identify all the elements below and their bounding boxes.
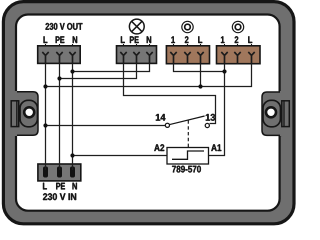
wire N to coil A2 bbox=[73, 155, 168, 157]
right latch clip bbox=[282, 101, 290, 127]
wire L to contact 14 bbox=[46, 125, 166, 127]
left latch lug bbox=[20, 100, 38, 127]
dashed actuator link bbox=[187, 120, 189, 147]
junction dot L bus at V1 bbox=[43, 84, 47, 88]
pushbutton symbol 1 bbox=[182, 21, 193, 32]
wire L bus bbox=[46, 64, 252, 87]
left latch bulge bbox=[13, 91, 38, 136]
label A2 bbox=[154, 144, 164, 151]
pushbutton symbol 2 bbox=[232, 21, 243, 32]
label 789-570 bbox=[172, 166, 201, 173]
junction dot A2 feed at V3 bbox=[70, 153, 74, 157]
terminal block B (lamp) bbox=[117, 44, 157, 63]
labels 1 2 L (block C) bbox=[171, 36, 202, 43]
enclosure inner face (white window) bbox=[16, 15, 280, 211]
caption 230 V IN bbox=[43, 193, 76, 200]
wire V1 L down bbox=[45, 63, 47, 170]
junction dot PE bus at V2 bbox=[57, 76, 61, 80]
left latch clip bbox=[11, 101, 19, 127]
labels L PE N (block B) bbox=[121, 36, 151, 43]
wire D1 down to A1 bbox=[209, 64, 225, 156]
labels L PE N (block A) bbox=[44, 36, 78, 43]
lamp symbol bbox=[129, 19, 144, 34]
terminal block A (230 V OUT) bbox=[38, 44, 80, 63]
wire block C L drop bbox=[200, 64, 202, 87]
wire V2 PE down bbox=[59, 63, 61, 170]
labels L PE N (block E) bbox=[43, 183, 77, 190]
junction dot C1-D1 at D1 bbox=[222, 69, 226, 73]
caption 230 V OUT bbox=[46, 23, 83, 30]
label 14 bbox=[156, 114, 166, 121]
contact 13 terminal bbox=[205, 123, 209, 127]
wire C1 to D1 bbox=[174, 64, 225, 72]
label A1 bbox=[211, 144, 221, 151]
wire N bus to lamp block bbox=[73, 63, 150, 71]
junction dot L bus at C L bbox=[198, 84, 202, 88]
junction dot 14 feed at V1 bbox=[43, 123, 47, 127]
junction dot N bus at V3 bbox=[70, 69, 74, 73]
right latch lug bbox=[263, 100, 281, 127]
right latch bulge bbox=[262, 91, 286, 136]
switch arm bbox=[170, 116, 205, 125]
wire V3 N down bbox=[72, 63, 74, 170]
wire lamp return (13 to lamp L) bbox=[124, 63, 216, 123]
labels 1 2 L (block D) bbox=[221, 36, 252, 43]
contact 14 terminal bbox=[165, 123, 169, 127]
wire PE bus to lamp block bbox=[60, 63, 137, 78]
terminal block C (pushbutton 1) bbox=[166, 44, 209, 64]
terminal block D (pushbutton 2) bbox=[217, 44, 261, 64]
label 13 bbox=[206, 114, 215, 121]
terminal block E (230 V IN) bbox=[38, 164, 81, 181]
relay coil box 789-570 bbox=[167, 148, 209, 165]
